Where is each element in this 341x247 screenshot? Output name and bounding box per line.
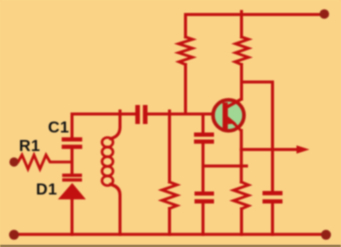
svg-text:D1: D1 (36, 182, 57, 199)
transistor Q1 base bar (223, 103, 228, 130)
wire: bottom ground rail (14, 233, 326, 236)
wire: D1 bottom lead to ground rail (71, 199, 74, 235)
wire: collector node branch to the right (242, 81, 273, 84)
transistor Q1 body circle (213, 100, 244, 131)
capacitor C2 plates (series cap in base line) (135, 105, 147, 124)
wire: C6 bottom lead to ground rail (271, 204, 274, 235)
wire: base line left segment (from C1 top to C2) (72, 114, 136, 138)
resistor R3 (upper bias, right / collector feed) (235, 37, 249, 65)
wire: R5 bottom lead to ground rail (168, 209, 171, 235)
capacitor C3 plates (upper cap on x=202 branch) (194, 133, 214, 144)
svg-text:C1: C1 (48, 120, 69, 137)
terminal dot: bottom right ground (321, 230, 331, 240)
capacitor C5 plates (lower cap on x=202 branch) (195, 192, 215, 204)
wire: C5 bottom lead to ground rail (202, 203, 205, 235)
capacitor C1 plates (vertical cap at left) (62, 137, 82, 149)
wire: emitter junction horizontal to C3/C5 node (203, 165, 247, 168)
transistor Q1 emitter arrowhead (228, 116, 237, 124)
resistor R6 (emitter resistor) (234, 182, 249, 209)
wire: C3 to C5 middle segment (202, 144, 205, 193)
wire: L1 top lead from base line (111, 114, 121, 139)
varactor diode D1: triangle (anode, pointing up) (58, 183, 86, 199)
varactor diode D1: double cathode bars (62, 174, 82, 182)
wire: R3 bottom lead down to collector (240, 65, 243, 100)
wire: emitter vertical lead (240, 131, 243, 183)
inductor L1 coil loops (102, 138, 113, 186)
wire: C3 top lead from base line (202, 114, 205, 134)
wire: R2 top lead from rail (184, 15, 187, 38)
svg-text:R1: R1 (19, 138, 40, 155)
wire: R2 bottom lead to base node (184, 65, 187, 115)
wire: L1 bottom lead to ground rail (111, 184, 121, 234)
wire: right vertical drop from collector node (271, 82, 274, 192)
wire: C1 bottom lead through R1 junction to D1 (71, 149, 74, 175)
bottom edge border line (0, 245, 341, 247)
output arrowhead (297, 145, 310, 153)
wire: top supply rail (186, 13, 327, 16)
resistor R2 (upper bias, left) (179, 37, 193, 65)
wire: R5 top lead from base line (168, 111, 171, 182)
wire: output line from emitter node (241, 148, 298, 151)
wire: R1 lead and zigzag row (14, 155, 72, 169)
wire: junction stub above base line at L1 tap (119, 111, 122, 114)
terminal dot: bottom left ground (9, 230, 19, 240)
wire: R6 bottom lead to ground rail (240, 209, 243, 235)
transistor Q1 collector stroke (227, 99, 243, 108)
wire: R3 top lead from rail (junction tick) (240, 12, 243, 38)
terminal dot: input left (9, 157, 18, 166)
resistor R5 (lower left, to ground) (162, 182, 177, 209)
capacitor C6 plates (right cap on x=274 branch) (263, 191, 283, 204)
terminal dot: top right supply (320, 9, 330, 19)
transistor Q1 emitter stroke (232, 122, 242, 132)
wire: base line right segment (C2 to Q1 base) (148, 113, 215, 116)
